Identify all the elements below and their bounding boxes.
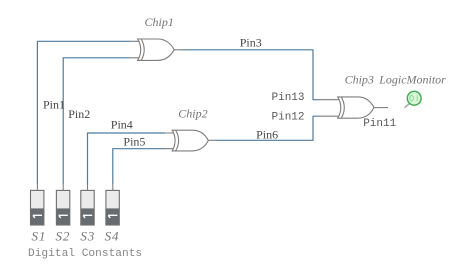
op gate Chip1 XOR body: [138, 39, 175, 60]
LogicMonitor probe icon: 1 glyph: [416, 95, 418, 101]
LogicMonitor probe icon: lens circle: [407, 91, 421, 105]
switch S2 lead stub: [62, 184, 64, 191]
LogicMonitor probe icon: handle: [405, 104, 410, 108]
switch S3 body: [81, 190, 94, 225]
svg-text:Pin1: Pin1: [43, 97, 65, 111]
svg-text:Pin6: Pin6: [256, 128, 278, 142]
svg-text:Chip2: Chip2: [178, 107, 207, 121]
switch S4 body: [106, 190, 119, 225]
LogicMonitor probe icon: 0 glyph: [410, 95, 414, 101]
svg-text:Pin4: Pin4: [111, 118, 133, 132]
Chip2 input leads: [165, 133, 173, 149]
Chip3 input leads: [319, 100, 339, 117]
Chip3 output lead Pin11: [374, 107, 388, 109]
switch S3 lead stub: [87, 184, 89, 191]
switch S2 body: [56, 190, 69, 225]
svg-text:S1: S1: [31, 228, 46, 243]
Chip1 XOR extra input arc: [141, 39, 144, 60]
svg-text:Pin13: Pin13: [272, 92, 305, 104]
switch S1 body: [31, 190, 44, 225]
svg-text:S2: S2: [55, 228, 70, 243]
wire net Pin6 Chip2 out to Chip3 pin12: [216, 116, 319, 140]
wire net S1 to Chip1 pin1: [37, 41, 130, 184]
Chip3 XOR extra input arc: [341, 97, 344, 118]
wire net S3 to Chip2 pin4: [88, 133, 166, 184]
svg-text:Pin5: Pin5: [123, 135, 145, 149]
svg-text:Pin2: Pin2: [68, 107, 90, 121]
svg-text:Digital Constants: Digital Constants: [28, 248, 142, 260]
svg-text:Chip3: Chip3: [345, 72, 374, 86]
svg-text:S4: S4: [105, 228, 120, 243]
wire net S2 to Chip1 pin2: [63, 58, 130, 184]
svg-text:Pin3: Pin3: [240, 35, 262, 49]
svg-text:LogicMonitor: LogicMonitor: [378, 72, 446, 86]
Chip1 output lead: [174, 49, 181, 51]
Chip2 XOR extra input arc: [176, 130, 179, 151]
wire net Pin3 Chip1 out to Chip3 pin13: [181, 50, 319, 100]
svg-text:S3: S3: [80, 228, 95, 243]
switch S1 lead stub: [36, 184, 38, 191]
op gate Chip2 XOR body: [172, 130, 208, 151]
svg-text:Chip1: Chip1: [145, 15, 174, 29]
wire net S4 to Chip2 pin5: [113, 149, 165, 184]
Chip1 input leads: [130, 41, 139, 58]
op gate Chip3 XOR body: [338, 97, 374, 118]
switch S4 lead stub: [112, 184, 114, 191]
svg-text:Pin11: Pin11: [363, 118, 396, 130]
svg-text:Pin12: Pin12: [272, 111, 305, 123]
Chip2 output lead: [208, 139, 216, 141]
